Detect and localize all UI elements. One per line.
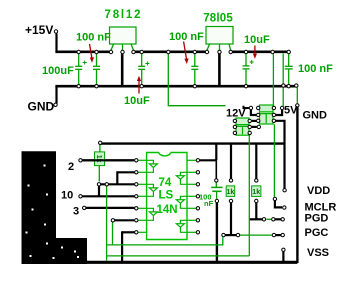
svg-text:12V: 12V [226,108,246,120]
svg-text:100 nF: 100 nF [298,63,333,75]
svg-text:74: 74 [159,177,172,189]
svg-text:VDD: VDD [307,185,330,197]
svg-text:5V: 5V [284,105,298,117]
svg-text:100 nF: 100 nF [76,32,111,44]
svg-text:1k: 1k [227,189,235,196]
svg-text:1k: 1k [95,155,102,163]
svg-text:10uF: 10uF [124,95,150,107]
svg-text:+15V: +15V [25,23,53,37]
svg-text:100uF: 100uF [42,65,74,77]
svg-text:78l05: 78l05 [203,12,233,24]
svg-text:10uF: 10uF [244,34,270,46]
svg-text:PGC: PGC [305,227,329,239]
svg-text:1k: 1k [252,189,260,196]
svg-text:2: 2 [68,161,74,173]
svg-text:GND: GND [28,100,55,114]
svg-text:14N: 14N [157,204,178,216]
svg-text:nF: nF [204,199,214,208]
svg-text:3: 3 [73,206,79,218]
svg-text:10: 10 [61,190,73,202]
svg-text:LS: LS [159,190,174,202]
svg-text:GND: GND [303,110,328,122]
svg-text:78l12: 78l12 [105,9,143,21]
svg-text:PGD: PGD [305,213,329,225]
svg-text:100 nF: 100 nF [169,31,204,43]
svg-text:VSS: VSS [307,247,329,259]
